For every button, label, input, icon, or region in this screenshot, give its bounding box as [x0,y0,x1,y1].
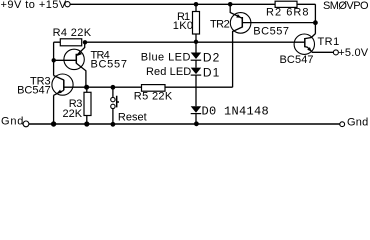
svg-text:Gnd: Gnd [1,116,24,128]
svg-text:1K0: 1K0 [173,20,193,32]
svg-text:SMØVPO: SMØVPO [323,0,369,12]
svg-text:+5.0V: +5.0V [338,47,369,59]
svg-text:R4 22K: R4 22K [53,27,92,39]
svg-text:TR1: TR1 [318,36,340,48]
svg-text:22K: 22K [63,108,83,120]
svg-text:Reset: Reset [118,111,147,123]
svg-text:BC547: BC547 [17,84,51,96]
svg-text:Red LED: Red LED [146,66,191,78]
svg-text:R2 6R8: R2 6R8 [266,7,310,19]
svg-text:R5 22K: R5 22K [134,91,173,103]
svg-text:Gnd: Gnd [347,117,369,129]
svg-text:+9V to +15V: +9V to +15V [1,0,67,11]
svg-text:BC557: BC557 [91,58,128,70]
svg-text:Blue LED: Blue LED [141,52,191,64]
svg-text:D1: D1 [203,66,221,80]
svg-text:D2: D2 [203,51,221,65]
svg-text:BC557: BC557 [253,26,289,38]
svg-text:D0 1N4148: D0 1N4148 [202,104,270,118]
svg-text:TR2: TR2 [210,19,230,31]
svg-text:BC547: BC547 [280,54,314,66]
